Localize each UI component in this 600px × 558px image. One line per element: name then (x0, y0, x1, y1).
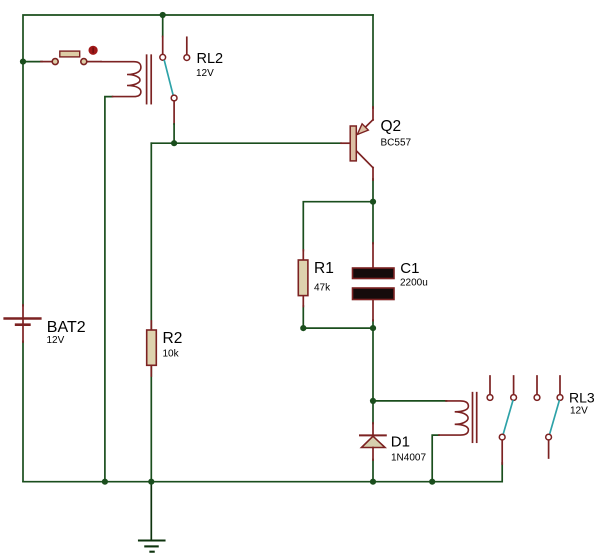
relay RL3 switch blade B (550, 401, 559, 434)
svg-text:2200u: 2200u (400, 278, 428, 289)
relay coil RL3 (439, 401, 468, 435)
wire D1 bottom (372, 460, 374, 482)
wire button branch (23, 61, 42, 63)
svg-text:C1: C1 (400, 260, 419, 277)
resistor R1 lead bottom (302, 296, 304, 307)
relay coil RL2 (101, 62, 141, 97)
svg-text:BC557: BC557 (381, 138, 412, 149)
svg-text:BAT2: BAT2 (47, 319, 86, 336)
relay RL3 pin 1 contact (487, 395, 493, 401)
wire left rail lower (22, 341, 24, 481)
svg-text:1N4007: 1N4007 (391, 453, 426, 464)
wire bottom rail (23, 463, 502, 482)
wire top rail (23, 15, 373, 62)
push button (52, 51, 87, 65)
relay RL3 pole contact A (499, 434, 505, 440)
svg-text:RL2: RL2 (197, 51, 224, 67)
resistor R2 (147, 330, 157, 365)
svg-text:12V: 12V (47, 335, 65, 346)
relay RL3 pin 3 stub (536, 376, 538, 394)
svg-text:R1: R1 (314, 260, 334, 277)
node D1 bottom rail (370, 479, 376, 485)
resistor R1 lead top (302, 250, 304, 260)
wire left rail upper (22, 62, 24, 306)
wire RL2 switch pole (162, 15, 164, 37)
svg-text:47k: 47k (314, 283, 331, 294)
relay RL3 switch blade A (503, 401, 512, 434)
diode D1 (362, 436, 386, 447)
resistor R2 lead top (150, 321, 152, 330)
relay RL2 NO contact (184, 55, 190, 61)
svg-text:RL3: RL3 (569, 390, 595, 406)
capacitor C1 plate bottom (353, 288, 395, 300)
wire R2 branch (150, 143, 152, 482)
svg-text:Q2: Q2 (381, 118, 402, 135)
node collector / R1 C1 top (370, 199, 376, 205)
relay RL3 pin 3 contact (534, 395, 540, 401)
svg-text:12V: 12V (570, 405, 588, 416)
svg-text:D1: D1 (391, 434, 410, 451)
node base wire / RL2 switch (171, 140, 177, 146)
node ground rail (148, 479, 154, 485)
relay RL3 pin 4 contact (557, 395, 563, 401)
node RL3 coil return rail (429, 479, 435, 485)
relay RL2 core (147, 55, 152, 103)
node D1 top / RL3 feed (370, 398, 376, 404)
node R1 bottom (300, 325, 306, 331)
diode D1 cathode bar (360, 434, 386, 436)
diode D1 lead bottom (372, 448, 374, 461)
button red actuator dot (89, 46, 98, 55)
relay RL2 switch pole lead (162, 37, 164, 55)
wire Q2 collector down (372, 179, 374, 244)
capacitor C1 lead bottom (372, 300, 374, 321)
svg-text:12V: 12V (196, 68, 214, 79)
relay RL2 switch pole contact (160, 54, 166, 60)
relay RL3 pole A lead (501, 440, 503, 464)
relay RL3 pin 2 contact (511, 395, 517, 401)
relay RL3 pin 1 stub (489, 376, 491, 394)
relay RL3 pin 4 stub (559, 376, 561, 394)
node left rail / button (20, 59, 26, 65)
wire RL3 coil return (432, 435, 439, 482)
wire C1 bottom to D1 (372, 320, 374, 424)
capacitor C1 plate top (353, 268, 395, 279)
transistor Q2 (341, 107, 373, 180)
push button lead right (87, 61, 101, 63)
wire RL3 coil feed (373, 400, 447, 402)
node top rail / RL2 switch (160, 12, 166, 18)
wire Q2 base (151, 142, 341, 144)
wire RL2 coil return (105, 97, 113, 482)
relay RL3 pole contact B (546, 434, 552, 440)
wire R1 branch top (303, 202, 373, 251)
node RL2 return rail (102, 479, 108, 485)
push button lead left (41, 61, 52, 63)
relay RL2 NO stub lead (186, 37, 188, 54)
relay RL2 switch moving contact (171, 95, 177, 101)
resistor R1 (298, 260, 308, 296)
svg-text:R2: R2 (163, 330, 183, 347)
capacitor C1 lead top (372, 243, 374, 268)
resistor R2 lead bottom (150, 365, 152, 376)
wire Q2 emitter from top (372, 15, 374, 108)
relay RL2 switch blade (164, 61, 173, 95)
relay RL2 switch bottom lead (173, 101, 175, 124)
relay RL3 core (473, 393, 477, 443)
battery BAT2 (5, 305, 41, 342)
diode D1 lead top (372, 423, 374, 436)
svg-text:10k: 10k (163, 349, 180, 360)
wire RL2 switch to base node (173, 124, 175, 143)
ground (139, 482, 165, 552)
relay RL3 pin 2 stub (513, 376, 515, 394)
wire R1 branch bottom (303, 306, 373, 328)
relay RL3 pole B stub (548, 440, 550, 458)
node C1 bottom (370, 325, 376, 331)
